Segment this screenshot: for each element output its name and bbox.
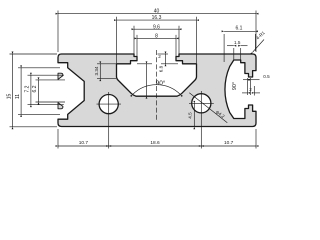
svg-text:8: 8 (155, 34, 158, 40)
svg-text:10.7: 10.7 (79, 140, 89, 146)
svg-text:18.6: 18.6 (150, 140, 160, 146)
svg-text:4-R1: 4-R1 (255, 30, 266, 41)
dim 11 left (15, 68, 60, 115)
svg-text:2: 2 (249, 87, 252, 92)
svg-text:1.5: 1.5 (234, 40, 241, 45)
svg-text:15: 15 (7, 94, 13, 100)
dim 6.2 left (32, 80, 65, 102)
leader 4-R1 (253, 30, 266, 52)
centerline hole H2 vertical (200, 91, 202, 149)
svg-text:0.5: 0.5 (263, 74, 270, 79)
dim 6.1 top right (224, 26, 255, 63)
centerline hole H1 vertical (108, 92, 110, 149)
dim 18.6 bottom center (109, 140, 202, 146)
leader dia 4.2 right hole (189, 93, 227, 123)
dim 10.7 bottom right (201, 129, 256, 149)
svg-text:6.2: 6.2 (32, 85, 38, 92)
dim 4.5 right hole (187, 103, 194, 127)
hole H1 (left) (99, 95, 118, 114)
centerline hole H2 horizontal (189, 102, 214, 104)
dim 10.7 bottom left (58, 129, 109, 149)
dim 15 left (7, 54, 58, 127)
centerline vertical center (156, 50, 158, 122)
svg-text:4.5: 4.5 (187, 112, 192, 119)
svg-text:11: 11 (15, 94, 21, 99)
left slot mouth tab top (58, 73, 63, 79)
dim 1.5 top right (227, 40, 248, 59)
dim 3.34 (94, 64, 116, 79)
svg-text:2: 2 (158, 54, 161, 59)
svg-text:6.8: 6.8 (158, 65, 163, 72)
dim 8 (137, 34, 176, 60)
svg-text:6.1: 6.1 (236, 26, 243, 32)
dim 16.3 (117, 15, 197, 63)
dim 0.5 right (243, 74, 270, 95)
dim 6.8 center (137, 64, 163, 96)
svg-text:40: 40 (154, 9, 160, 15)
centerline hole H1 horizontal (97, 103, 122, 105)
svg-text:16.3: 16.3 (152, 15, 162, 21)
dim 2 top center (158, 54, 179, 64)
left slot mouth tab bottom (58, 103, 63, 109)
svg-text:9.6: 9.6 (153, 24, 160, 30)
svg-text:90°: 90° (156, 79, 166, 87)
hole H2 (right) (192, 94, 211, 113)
svg-text:10.7: 10.7 (224, 140, 234, 146)
svg-text:7.2: 7.2 (25, 85, 31, 92)
dim 7.2 left (25, 75, 64, 105)
dim 90 deg center arc (133, 79, 181, 95)
profile body (58, 54, 256, 127)
svg-text:3.34: 3.34 (94, 66, 99, 75)
svg-text:90°: 90° (232, 82, 238, 90)
dim 2 right (242, 86, 260, 96)
dim 40 top (58, 9, 256, 52)
dim 9.6 (134, 24, 179, 55)
